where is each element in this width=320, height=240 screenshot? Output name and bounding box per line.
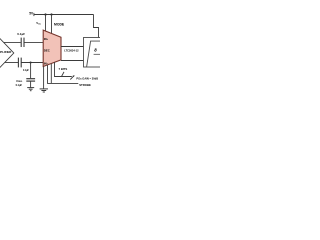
junction dot B	[50, 13, 52, 15]
wire upper signal to IN+	[4, 41, 21, 43]
wire ADC output upper to box	[61, 46, 84, 48]
arrow to gain annotation	[70, 76, 74, 80]
capacitor CREG	[26, 78, 35, 80]
svg-text:PGx GAIN = 30dB: PGx GAIN = 30dB	[76, 77, 98, 81]
wire VCC drop to ADC pin A	[45, 15, 47, 32]
wire CS control	[50, 64, 52, 84]
wire rail step down to FPGA box	[94, 15, 99, 39]
svg-text:0.1µF: 0.1µF	[17, 32, 25, 36]
junction dot C	[30, 61, 32, 63]
junction dot A	[44, 13, 46, 15]
background	[0, 0, 100, 100]
svg-text:IN−: IN−	[44, 61, 49, 65]
wire 7-bit bus drop and run	[55, 62, 72, 76]
svg-text:MODE: MODE	[54, 22, 65, 26]
wire CREG to ground	[30, 81, 32, 87]
wire lower signal to IN-	[5, 62, 18, 64]
capacitor C2	[17, 58, 19, 68]
svg-text:STROBE: STROBE	[79, 83, 91, 87]
svg-text:AMPLIFIER: AMPLIFIER	[0, 50, 12, 54]
wire C1 to ADC IN+	[24, 41, 43, 43]
wire ADC ground drop	[43, 66, 45, 88]
wire VCC drop to ADC pin B	[51, 15, 53, 34]
svg-text:LTC2634-12: LTC2634-12	[64, 49, 79, 53]
ground G1	[27, 87, 34, 89]
wire junction down to CREG	[30, 63, 32, 79]
wire STROBE run	[48, 65, 79, 83]
display icon inside box	[87, 41, 102, 67]
ADC U2 trapezoid body	[43, 30, 61, 66]
wire VCC supply rail	[34, 14, 94, 16]
wire C2 to ADC IN-	[21, 62, 43, 64]
svg-text:0.1µF: 0.1µF	[16, 84, 23, 87]
svg-text:0.1µF: 0.1µF	[23, 70, 30, 72]
wire ADC output lower to box	[61, 60, 84, 62]
FPGA box U3	[84, 38, 103, 68]
ground G2	[40, 88, 48, 90]
rail start tick	[33, 13, 35, 16]
op-amp U1 driver amplifier	[0, 33, 14, 72]
capacitor C1	[20, 38, 22, 47]
svg-text:7 BITS: 7 BITS	[59, 67, 68, 71]
bus slash mark	[61, 72, 64, 77]
svg-text:DEC: DEC	[44, 49, 50, 53]
